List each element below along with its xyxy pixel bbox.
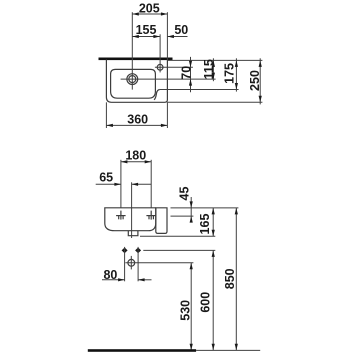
svg-text:155: 155 — [136, 23, 157, 37]
svg-text:250: 250 — [248, 70, 262, 91]
svg-text:175: 175 — [223, 63, 237, 84]
svg-text:530: 530 — [178, 300, 192, 321]
svg-text:50: 50 — [174, 23, 188, 37]
svg-text:180: 180 — [125, 148, 146, 162]
svg-text:65: 65 — [99, 170, 113, 184]
svg-text:115: 115 — [202, 59, 216, 79]
svg-text:360: 360 — [127, 113, 148, 127]
svg-text:80: 80 — [103, 268, 117, 282]
svg-text:600: 600 — [198, 292, 212, 313]
svg-text:70: 70 — [179, 66, 193, 80]
svg-text:205: 205 — [139, 1, 160, 15]
svg-text:45: 45 — [178, 187, 192, 201]
svg-text:850: 850 — [223, 268, 237, 289]
svg-text:165: 165 — [198, 214, 212, 235]
